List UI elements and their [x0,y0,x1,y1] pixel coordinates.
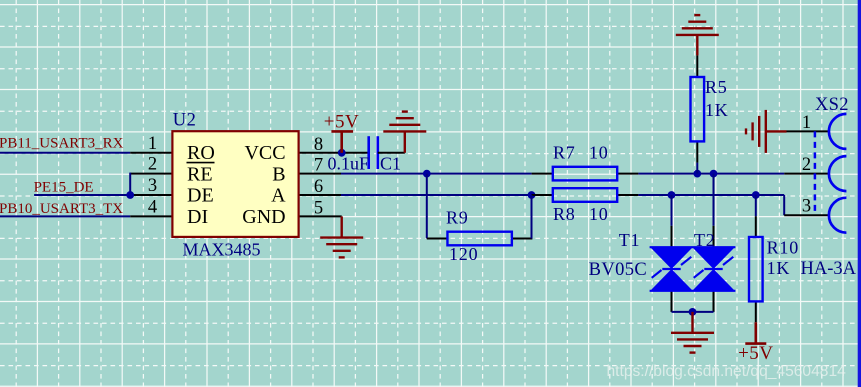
svg-text:https://blog.csdn.net/qq_45604: https://blog.csdn.net/qq_45604814 [607,363,847,380]
svg-text:0.1uF: 0.1uF [328,153,370,173]
svg-text:C1: C1 [380,153,401,173]
svg-text:R5: R5 [705,77,728,97]
svg-text:RO: RO [187,142,215,164]
svg-text:PB10_USART3_TX: PB10_USART3_TX [0,201,123,217]
svg-text:B: B [272,163,285,185]
svg-text:10: 10 [589,142,609,162]
svg-text:+5V: +5V [738,343,773,364]
svg-text:R9: R9 [446,207,469,227]
svg-text:1: 1 [802,113,811,133]
svg-text:1K: 1K [767,258,791,278]
svg-text:DE: DE [187,185,214,207]
svg-text:R10: R10 [767,237,799,257]
svg-text:8: 8 [314,135,323,155]
svg-text:7: 7 [314,156,323,176]
svg-text:T2: T2 [694,230,716,250]
svg-text:3: 3 [148,176,157,196]
svg-text:2: 2 [802,155,811,175]
svg-text:A: A [271,185,286,207]
svg-text:BV05C: BV05C [589,260,648,280]
svg-text:VCC: VCC [244,142,285,164]
svg-text:RE: RE [187,163,213,185]
svg-text:XS2: XS2 [815,95,849,115]
svg-text:1K: 1K [705,100,729,120]
svg-text:4: 4 [148,197,157,217]
svg-text:+5V: +5V [324,112,359,133]
svg-text:10: 10 [589,204,609,224]
svg-text:DI: DI [187,206,208,228]
svg-text:6: 6 [314,177,323,197]
svg-text:1: 1 [148,134,157,154]
svg-text:PE15_DE: PE15_DE [34,180,94,196]
svg-text:PB11_USART3_RX: PB11_USART3_RX [0,135,124,151]
svg-text:R8: R8 [553,204,576,224]
svg-text:R7: R7 [553,142,576,162]
svg-text:120: 120 [449,244,478,264]
svg-text:3: 3 [802,197,811,217]
svg-text:2: 2 [148,155,157,175]
svg-text:MAX3485: MAX3485 [183,239,261,259]
svg-text:5: 5 [314,198,323,218]
svg-text:U2: U2 [173,111,197,131]
svg-text:GND: GND [242,206,285,228]
svg-text:T1: T1 [619,230,641,250]
svg-text:HA-3A: HA-3A [801,259,857,279]
